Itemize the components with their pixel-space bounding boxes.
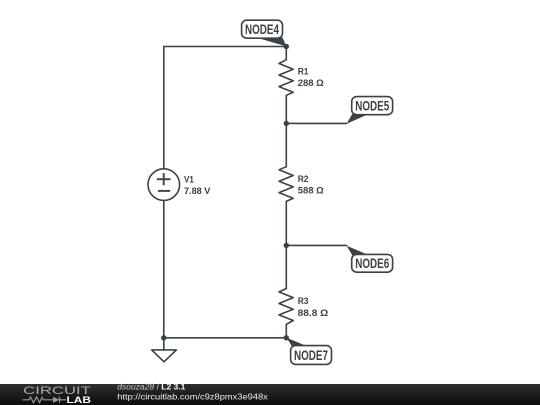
wire left upper <box>163 47 165 169</box>
svg-text:NODE5: NODE5 <box>355 99 389 114</box>
svg-text:LAB: LAB <box>67 395 92 405</box>
wire NODE5 leader <box>286 122 346 124</box>
label R2 value <box>298 174 324 196</box>
resistor R2 <box>279 167 293 202</box>
label R1 value <box>298 67 324 89</box>
junction node A top <box>284 44 289 49</box>
logo resistor-diode symbol <box>23 397 66 403</box>
ground lead <box>163 338 165 350</box>
junction node E ground <box>161 335 166 340</box>
node NODE6 callout <box>347 246 393 272</box>
wire NODE6 leader <box>286 244 346 246</box>
svg-text:dsouza28 / L2 3.1: dsouza28 / L2 3.1 <box>117 381 185 391</box>
wire R3 to NODE7 junction <box>285 324 287 338</box>
svg-text:NODE4: NODE4 <box>245 22 279 37</box>
svg-text:V1: V1 <box>184 174 194 185</box>
svg-text:88.8 Ω: 88.8 Ω <box>298 308 329 319</box>
svg-text:7.88 V: 7.88 V <box>184 186 211 197</box>
voltage source V1 circle <box>148 169 180 201</box>
wire R2 to NODE6 junction <box>285 201 287 288</box>
wire left lower <box>163 200 165 337</box>
wire right R1 top lead <box>285 47 287 60</box>
node NODE7 callout <box>286 338 331 365</box>
resistor R1 <box>279 60 293 96</box>
footer bar <box>0 384 540 405</box>
svg-text:588 Ω: 588 Ω <box>298 186 324 197</box>
junction node D bottom <box>284 335 289 340</box>
ground triangle <box>152 350 177 362</box>
V1 minus sign <box>158 190 170 192</box>
svg-text:R1: R1 <box>298 67 309 78</box>
label R3 value <box>298 296 329 319</box>
svg-text:R3: R3 <box>298 296 309 307</box>
node NODE4 callout <box>242 20 287 46</box>
resistor R3 <box>279 289 293 325</box>
wire bottom <box>164 337 286 339</box>
svg-text:R2: R2 <box>298 174 309 185</box>
wire R1 to NODE5 junction <box>285 95 287 166</box>
node NODE5 callout <box>347 97 393 124</box>
V1 plus sign <box>157 173 171 185</box>
junction node B (R1-R2) <box>284 121 289 126</box>
svg-text:NODE7: NODE7 <box>294 348 328 363</box>
svg-text:NODE6: NODE6 <box>355 256 389 271</box>
svg-text:288 Ω: 288 Ω <box>298 78 324 89</box>
label V1 value <box>184 174 211 196</box>
junction node C (R2-R3) <box>284 243 289 248</box>
svg-text:http://circuitlab.com/c9z8pmx3: http://circuitlab.com/c9z8pmx3e948x <box>117 391 268 401</box>
wire top <box>164 46 286 48</box>
